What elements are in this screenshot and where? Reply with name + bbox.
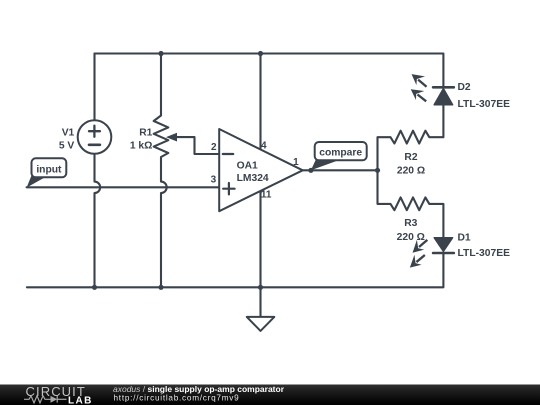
svg-text:220 Ω: 220 Ω <box>397 166 425 177</box>
svg-text:LAB: LAB <box>68 395 93 405</box>
svg-text:R3: R3 <box>404 218 417 229</box>
svg-text:1: 1 <box>293 157 299 168</box>
svg-text:input: input <box>36 164 62 175</box>
svg-text:LTL-307EE: LTL-307EE <box>458 248 511 259</box>
svg-text:axodus / single supply op-amp: axodus / single supply op-amp comparator <box>113 384 285 394</box>
svg-text:1 kΩ: 1 kΩ <box>130 141 153 152</box>
svg-text:R2: R2 <box>404 152 417 163</box>
svg-text:220 Ω: 220 Ω <box>397 232 425 243</box>
svg-text:5 V: 5 V <box>59 141 75 152</box>
svg-text:D2: D2 <box>458 82 471 93</box>
svg-text:V1: V1 <box>62 128 75 139</box>
svg-text:4: 4 <box>261 140 267 151</box>
svg-text:D1: D1 <box>458 233 471 244</box>
svg-text:OA1: OA1 <box>237 160 258 171</box>
svg-text:compare: compare <box>319 148 362 159</box>
svg-text:R1: R1 <box>139 128 152 139</box>
svg-text:11: 11 <box>261 189 272 200</box>
svg-text:3: 3 <box>211 175 217 186</box>
svg-text:LM324: LM324 <box>237 173 269 184</box>
svg-text:http://circuitlab.com/crq7mv9: http://circuitlab.com/crq7mv9 <box>114 393 240 402</box>
svg-text:2: 2 <box>211 142 217 153</box>
svg-text:LTL-307EE: LTL-307EE <box>458 99 511 110</box>
